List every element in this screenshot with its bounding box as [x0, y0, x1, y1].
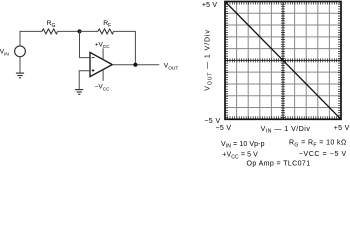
border tick marks right: [338, 2, 340, 120]
svg-text:RG: RG: [47, 20, 56, 29]
wire op-amp output to VOUT: [112, 64, 159, 66]
wire node A to RF: [80, 30, 99, 32]
output node junction dot: [133, 63, 137, 67]
border tick marks top: [225, 2, 341, 4]
wire node A down to inverting input: [80, 31, 91, 57]
svg-text:RG = RF = 10 kΩ: RG = RF = 10 kΩ: [289, 140, 347, 149]
svg-text:+5 V: +5 V: [334, 125, 350, 132]
grid interior lines: [225, 2, 341, 120]
note RG = RF = 10 kOhm: [289, 140, 347, 149]
svg-text:−5 V: −5 V: [216, 125, 232, 132]
ground (non-inverting input): [75, 90, 83, 95]
svg-text:VIN — 1 V/Div: VIN — 1 V/Div: [261, 126, 311, 135]
op-amp minus pin mark: [92, 57, 95, 59]
label x-axis VIN - 1 V/Div: [261, 126, 311, 135]
svg-text:+5 V: +5 V: [202, 2, 218, 9]
svg-text:−VCC: −VCC: [95, 84, 110, 92]
wire source top to RG: [20, 31, 42, 46]
node A (junction dot): [78, 29, 82, 33]
svg-text:VIN = 10 Vp-p: VIN = 10 Vp-p: [221, 141, 265, 150]
source VIN (circle): [15, 46, 26, 57]
border tick marks bottom: [225, 116, 341, 118]
wire RF to output node (feedback): [114, 31, 136, 64]
label y-axis VOUT - 1 V/Div (rotated): [205, 29, 214, 90]
op-amp plus pin mark: [92, 69, 95, 72]
transfer curve (diagonal trace): [225, 2, 341, 120]
label +VCC: [95, 41, 110, 49]
label +5V (x-axis right): [334, 125, 350, 132]
wire non-inverting input to ground: [79, 71, 90, 90]
svg-text:VOUT — 1 V/Div: VOUT — 1 V/Div: [205, 29, 214, 90]
center axis tick marks (vertical axis): [281, 2, 285, 120]
svg-text:RF: RF: [103, 20, 111, 29]
label VOUT: [164, 63, 179, 72]
resistor RF: [98, 29, 114, 34]
note +VCC = 5 V: [222, 152, 258, 161]
note -VCC = -5 V: [299, 151, 347, 158]
svg-text:+VCC = 5 V: +VCC = 5 V: [222, 152, 258, 161]
svg-text:VOUT: VOUT: [164, 63, 179, 72]
label -VCC: [95, 84, 110, 92]
wire RG to node A: [58, 30, 80, 32]
grid border: [225, 2, 341, 120]
label +5V (y-axis top): [202, 2, 218, 9]
svg-text:VIN: VIN: [0, 49, 9, 58]
ground (under source): [16, 73, 24, 78]
center axis tick marks (horizontal axis): [225, 58, 341, 62]
label RG: [47, 20, 56, 29]
center axis lines: [225, 59, 341, 61]
-VCC supply stub: [102, 70, 104, 81]
svg-text:−VCC = −5 V: −VCC = −5 V: [299, 151, 347, 158]
border tick marks left: [226, 2, 228, 120]
label VIN: [0, 49, 9, 58]
svg-text:+VCC: +VCC: [95, 41, 110, 49]
label -5V (x-axis left): [216, 125, 232, 132]
svg-text:Op Amp = TLC071: Op Amp = TLC071: [246, 160, 310, 167]
+VCC supply stub: [102, 48, 104, 59]
resistor RG: [42, 29, 58, 34]
note VIN = 10 Vp-p: [221, 141, 265, 150]
op-amp U1 (triangle): [90, 52, 112, 76]
wire source bottom to ground: [19, 57, 21, 73]
svg-text:−5 V: −5 V: [204, 118, 220, 125]
note Op Amp = TLC071: [246, 160, 310, 167]
label -5V (y-axis bottom): [204, 118, 220, 125]
label RF: [103, 20, 111, 29]
